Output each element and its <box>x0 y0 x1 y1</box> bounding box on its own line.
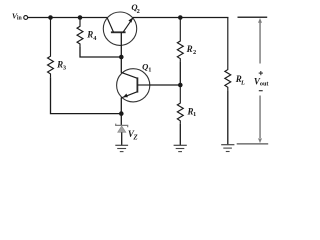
Vout measurement arrow (up) <box>258 18 262 64</box>
resistor R4 <box>77 18 83 48</box>
svg-text:2: 2 <box>137 8 140 15</box>
svg-text:2: 2 <box>193 49 196 56</box>
wire top rail left (Vin to Q2 collector) <box>28 17 108 19</box>
svg-text:R: R <box>186 44 193 54</box>
svg-text:in: in <box>17 16 23 22</box>
resistor R1 <box>177 85 183 124</box>
label − <box>259 90 263 92</box>
Vout bottom reference line <box>237 143 269 145</box>
node top rail / R2 <box>178 15 183 20</box>
wire R1 bottom to ground <box>179 124 181 145</box>
svg-text:1: 1 <box>148 67 151 74</box>
label + <box>259 71 263 75</box>
transistor Q1 <box>117 57 150 114</box>
wire R3 bottom to zener node <box>51 77 122 113</box>
Vout measurement arrow (down) <box>258 96 262 144</box>
input terminal Vin <box>24 16 28 20</box>
resistor RL <box>225 18 231 91</box>
svg-text:3: 3 <box>63 65 66 72</box>
svg-text:L: L <box>240 80 245 87</box>
node top rail / R3 <box>48 15 53 20</box>
svg-text:Z: Z <box>132 133 138 141</box>
wire R4 bottom to Q2 base node <box>80 47 121 57</box>
wire top rail right (Q2 emitter to RL corner) <box>133 17 229 19</box>
ground (RL) <box>221 145 234 152</box>
resistor R3 <box>48 18 54 78</box>
Vout top reference line <box>238 16 268 18</box>
ground (R1) <box>174 145 187 151</box>
svg-text:4: 4 <box>93 35 97 42</box>
wire Q1 base to divider node <box>150 84 181 86</box>
wire R2 bottom to node <box>179 62 181 85</box>
transistor Q2 <box>103 12 136 57</box>
wire RL bottom to ground <box>227 91 229 145</box>
node top rail / R4 <box>78 15 83 20</box>
node Q2 base / Q1 collector / R4 <box>119 55 124 60</box>
svg-text:out: out <box>260 81 270 88</box>
node R1/R2/Q1 base <box>178 83 183 88</box>
ground (zener) <box>115 145 128 151</box>
svg-text:R: R <box>86 30 93 40</box>
resistor R2 <box>177 18 183 62</box>
svg-text:1: 1 <box>193 111 196 118</box>
zener diode VZ <box>116 114 128 145</box>
node zener / Q1 emitter / R3 <box>119 111 124 116</box>
